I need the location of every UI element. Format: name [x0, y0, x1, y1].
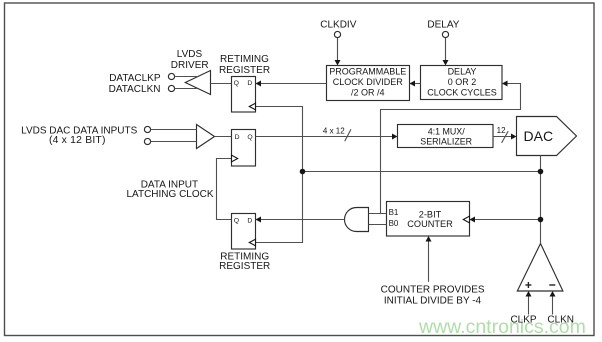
svg-text:4:1 MUX/: 4:1 MUX/	[428, 126, 466, 136]
svg-text:CLKDIV: CLKDIV	[320, 20, 356, 31]
svg-text:DAC: DAC	[524, 128, 554, 144]
svg-text:Q: Q	[247, 134, 252, 141]
svg-text:CLOCK DIVIDER: CLOCK DIVIDER	[333, 77, 404, 87]
svg-text:COUNTER PROVIDES: COUNTER PROVIDES	[381, 285, 485, 296]
svg-text:CLKP: CLKP	[510, 315, 536, 326]
svg-text:(4 x 12 BIT): (4 x 12 BIT)	[49, 135, 106, 146]
svg-text:2-BIT: 2-BIT	[419, 210, 442, 220]
svg-text:12: 12	[497, 126, 506, 135]
svg-text:COUNTER: COUNTER	[407, 219, 453, 229]
svg-text:DRIVER: DRIVER	[171, 60, 209, 71]
svg-text:D: D	[247, 218, 252, 225]
svg-text:0 OR 2: 0 OR 2	[448, 77, 477, 87]
svg-text:4 x 12: 4 x 12	[323, 126, 345, 135]
svg-text:RETIMING: RETIMING	[220, 54, 269, 65]
svg-text:PROGRAMMABLE: PROGRAMMABLE	[329, 66, 406, 76]
svg-text:REGISTER: REGISTER	[219, 261, 270, 272]
svg-text:/2 OR /4: /2 OR /4	[351, 88, 385, 98]
svg-text:DATACLKP: DATACLKP	[109, 73, 161, 84]
svg-text:DELAY: DELAY	[448, 66, 477, 76]
svg-text:INITIAL DIVIDE BY -4: INITIAL DIVIDE BY -4	[384, 296, 482, 307]
svg-text:D: D	[247, 80, 252, 87]
svg-text:B0: B0	[389, 219, 399, 228]
svg-text:B1: B1	[389, 208, 399, 217]
svg-text:SERIALIZER: SERIALIZER	[420, 136, 472, 146]
svg-text:LATCHING CLOCK: LATCHING CLOCK	[126, 189, 213, 200]
svg-text:LVDS: LVDS	[177, 49, 203, 60]
svg-text:DELAY: DELAY	[427, 20, 459, 31]
svg-text:REGISTER: REGISTER	[219, 65, 270, 76]
svg-text:DATACLKN: DATACLKN	[109, 84, 161, 95]
svg-text:Q: Q	[234, 218, 239, 225]
svg-text:D: D	[235, 134, 240, 141]
svg-text:CLKN: CLKN	[547, 315, 574, 326]
svg-text:Q: Q	[234, 80, 239, 87]
svg-text:CLOCK CYCLES: CLOCK CYCLES	[427, 88, 497, 98]
